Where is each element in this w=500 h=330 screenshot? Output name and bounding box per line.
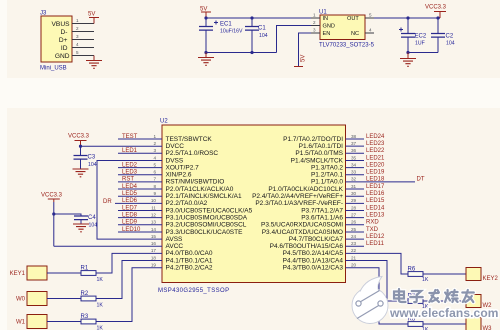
svg-text:P2.2/TA0.0/A2: P2.2/TA0.0/A2: [166, 200, 208, 207]
svg-text:P4.7/TB0CLK/CA7: P4.7/TB0CLK/CA7: [289, 236, 344, 243]
svg-text:28: 28: [351, 205, 357, 210]
svg-text:LED12: LED12: [366, 234, 385, 240]
svg-text:AVSS: AVSS: [166, 236, 184, 243]
svg-text:XOUT/P2.7: XOUT/P2.7: [166, 164, 200, 171]
svg-text:D-: D-: [61, 29, 68, 36]
svg-text:P2.0/TA1CLK/ACLK/A0: P2.0/TA1CLK/ACLK/A0: [166, 186, 234, 193]
svg-text:MSP430G2955_TSSOP: MSP430G2955_TSSOP: [158, 288, 230, 294]
svg-text:Mini_USB: Mini_USB: [40, 66, 67, 72]
svg-text:VCC3.3: VCC3.3: [68, 134, 90, 140]
svg-text:P3.2/UCB0SOMI/UCB0SCL: P3.2/UCB0SOMI/UCB0SCL: [166, 222, 247, 229]
svg-text:19: 19: [151, 263, 157, 268]
svg-text:P4.0/TB0.0/CA0: P4.0/TB0.0/CA0: [166, 250, 213, 257]
svg-text:P1.2/TA0.1: P1.2/TA0.1: [311, 172, 343, 179]
svg-text:2: 2: [313, 20, 316, 25]
svg-text:GND: GND: [55, 53, 70, 60]
svg-text:5V: 5V: [301, 55, 307, 62]
svg-text:2: 2: [153, 141, 156, 146]
svg-text:17: 17: [151, 248, 157, 253]
svg-text:LED11: LED11: [366, 241, 385, 247]
svg-text:13: 13: [151, 220, 157, 225]
svg-text:LED7: LED7: [122, 205, 138, 211]
svg-text:P2.1/TAINCLK/SMCLK/A1: P2.1/TAINCLK/SMCLK/A1: [166, 193, 242, 200]
svg-text:104: 104: [88, 162, 97, 168]
svg-text:P4.1/TB0.1/CA1: P4.1/TB0.1/CA1: [166, 257, 213, 264]
svg-text:29: 29: [351, 198, 357, 203]
svg-text:D+: D+: [59, 37, 68, 44]
svg-text:RST/NMI/SBWTDIO: RST/NMI/SBWTDIO: [166, 179, 225, 186]
svg-text:1K: 1K: [97, 326, 104, 330]
svg-text:LED1: LED1: [122, 148, 138, 154]
svg-text:EC2: EC2: [415, 34, 427, 40]
svg-text:3: 3: [313, 28, 316, 33]
svg-text:LED2: LED2: [122, 162, 138, 168]
svg-text:KEY2: KEY2: [483, 276, 499, 282]
svg-text:LED22: LED22: [366, 148, 385, 154]
svg-text:R3: R3: [81, 314, 89, 320]
svg-text:LED13: LED13: [366, 212, 385, 218]
svg-text:12: 12: [151, 212, 157, 217]
svg-text:TEST/SBWTCK: TEST/SBWTCK: [166, 136, 213, 143]
svg-text:OUT: OUT: [347, 16, 359, 22]
svg-text:LED23: LED23: [366, 141, 385, 147]
svg-text:8: 8: [153, 184, 156, 189]
svg-text:P1.4/SMCLK/TCK: P1.4/SMCLK/TCK: [291, 157, 344, 164]
svg-text:LED24: LED24: [366, 134, 385, 140]
svg-text:VBUS: VBUS: [52, 21, 71, 28]
svg-text:C1: C1: [258, 26, 266, 32]
svg-text:R1: R1: [81, 265, 89, 271]
svg-text:9: 9: [153, 191, 156, 196]
svg-text:P2.4/TA0.2/A4/VREF+/VeREF+: P2.4/TA0.2/A4/VREF+/VeREF+: [252, 193, 343, 200]
svg-text:P4.6/TB0OUTH/A15/CA6: P4.6/TB0OUTH/A15/CA6: [270, 243, 344, 250]
svg-text:5V: 5V: [88, 12, 95, 18]
svg-text:33: 33: [351, 170, 357, 175]
svg-text:P3.6/TA1.1/A6: P3.6/TA1.1/A6: [301, 214, 343, 221]
svg-text:LED16: LED16: [366, 191, 385, 197]
svg-text:25: 25: [351, 227, 357, 232]
svg-text:3: 3: [153, 148, 156, 153]
svg-text:P1.1/TA0.0: P1.1/TA0.0: [311, 179, 343, 186]
svg-text:W3: W3: [483, 326, 493, 330]
svg-text:P1.0/TA0CLK/ADC10CLK: P1.0/TA0CLK/ADC10CLK: [268, 186, 343, 193]
svg-text:RXD: RXD: [366, 220, 379, 226]
svg-text:18: 18: [151, 255, 157, 260]
svg-text:IN: IN: [323, 16, 329, 22]
svg-text:26: 26: [351, 220, 357, 225]
svg-text:W0: W0: [16, 297, 26, 303]
svg-text:KEY1: KEY1: [10, 271, 26, 277]
svg-text:P3.3/UCB0CLK/UCA0STE: P3.3/UCB0CLK/UCA0STE: [166, 229, 244, 236]
svg-text:P3.4/UCA0TXD/UCA0SIMO: P3.4/UCA0TXD/UCA0SIMO: [262, 229, 343, 236]
svg-text:4: 4: [369, 28, 372, 33]
svg-text:10uF/16V: 10uF/16V: [220, 29, 243, 35]
svg-text:1UF: 1UF: [415, 41, 425, 47]
svg-text:LED9: LED9: [122, 220, 138, 226]
svg-text:P1.7/TA0.2/TDO/TDI: P1.7/TA0.2/TDO/TDI: [283, 136, 343, 143]
svg-text:DVSS: DVSS: [166, 157, 184, 164]
svg-text:LED6: LED6: [122, 198, 138, 204]
svg-text:P4.5/TB0.2/A14/CA5: P4.5/TB0.2/A14/CA5: [283, 250, 344, 257]
svg-text:34: 34: [351, 162, 357, 167]
svg-text:22: 22: [351, 248, 357, 253]
svg-text:30: 30: [351, 191, 357, 196]
svg-text:LED10: LED10: [122, 227, 141, 233]
svg-text:P3.7/TA1.2/A7: P3.7/TA1.2/A7: [301, 207, 343, 214]
svg-text:16: 16: [151, 241, 157, 246]
svg-text:23: 23: [351, 241, 357, 246]
svg-text:C3: C3: [88, 155, 96, 161]
svg-text:4: 4: [76, 42, 79, 47]
svg-text:RST: RST: [122, 177, 134, 183]
svg-text:6: 6: [153, 170, 156, 175]
svg-text:LED4: LED4: [122, 184, 138, 190]
svg-text:VCC3.3: VCC3.3: [425, 5, 447, 11]
svg-text:5: 5: [153, 162, 156, 167]
svg-text:10: 10: [151, 198, 157, 203]
svg-text:W1: W1: [16, 320, 26, 326]
svg-text:LED17: LED17: [366, 184, 385, 190]
svg-text:38: 38: [351, 134, 357, 139]
svg-text:104: 104: [89, 223, 98, 229]
svg-text:U2: U2: [160, 119, 168, 125]
svg-text:P3.5/UCA0RXD/UCA0SOMI: P3.5/UCA0RXD/UCA0SOMI: [261, 222, 343, 229]
svg-text:P1.6/TA0.1/TDI: P1.6/TA0.1/TDI: [299, 143, 344, 150]
svg-text:1: 1: [153, 134, 156, 139]
svg-text:P1.3/TA0.2: P1.3/TA0.2: [311, 164, 343, 171]
svg-text:DT: DT: [417, 177, 425, 183]
svg-text:GND: GND: [323, 24, 335, 30]
svg-text:R2: R2: [81, 291, 89, 297]
svg-text:LED8: LED8: [122, 212, 138, 218]
svg-text:P3.0/UCB0STE/UCA0CLK/A5: P3.0/UCB0STE/UCA0CLK/A5: [166, 207, 253, 214]
svg-text:1K: 1K: [97, 303, 104, 309]
svg-text:P1.5/TA0.0/TMS: P1.5/TA0.0/TMS: [295, 150, 343, 157]
svg-text:NC: NC: [351, 31, 359, 37]
svg-text:LED5: LED5: [122, 191, 138, 197]
svg-text:www.elecfans.com: www.elecfans.com: [389, 306, 499, 320]
svg-text:4: 4: [153, 155, 156, 160]
svg-text:P4.2/TB0.2/CA2: P4.2/TB0.2/CA2: [166, 265, 213, 272]
svg-text:EC1: EC1: [220, 22, 232, 28]
svg-text:36: 36: [351, 148, 357, 153]
svg-text:21: 21: [351, 255, 357, 260]
svg-text:U1: U1: [319, 10, 327, 16]
svg-text:104: 104: [446, 41, 455, 47]
svg-text:AVCC: AVCC: [166, 243, 184, 250]
svg-text:1: 1: [313, 13, 316, 18]
svg-text:1K: 1K: [97, 277, 104, 283]
svg-text:DR: DR: [103, 199, 112, 205]
svg-text:ID: ID: [61, 45, 68, 52]
svg-text:LED21: LED21: [366, 155, 385, 161]
svg-text:LED18: LED18: [366, 177, 385, 183]
svg-text:C2: C2: [446, 34, 454, 40]
svg-text:5: 5: [76, 50, 79, 55]
svg-text:LED3: LED3: [122, 170, 138, 176]
svg-text:37: 37: [351, 141, 357, 146]
svg-text:35: 35: [351, 155, 357, 160]
svg-text:11: 11: [151, 205, 156, 210]
svg-text:1K: 1K: [422, 277, 429, 283]
svg-text:P2.5/TA1.0/ROSC: P2.5/TA1.0/ROSC: [166, 150, 219, 157]
svg-text:DVCC: DVCC: [166, 143, 185, 150]
svg-text:LED14: LED14: [366, 205, 385, 211]
svg-text:P3.1/UCB0SIMO/UCB0SDA: P3.1/UCB0SIMO/UCB0SDA: [166, 214, 248, 221]
svg-text:3: 3: [76, 34, 79, 39]
svg-text:5: 5: [369, 13, 372, 18]
svg-text:P4.3/TB0.0/A12/CA3: P4.3/TB0.0/A12/CA3: [283, 265, 344, 272]
svg-text:LED19: LED19: [366, 170, 385, 176]
svg-text:20: 20: [351, 263, 357, 268]
svg-text:VCC3.3: VCC3.3: [41, 193, 63, 199]
svg-text:TLV70233_SOT23-5: TLV70233_SOT23-5: [319, 43, 375, 49]
svg-text:EN: EN: [323, 31, 331, 37]
svg-text:27: 27: [351, 212, 357, 217]
svg-text:LED15: LED15: [366, 198, 385, 204]
svg-text:7: 7: [153, 177, 156, 182]
svg-text:XIN/P2.6: XIN/P2.6: [166, 172, 192, 179]
svg-text:1: 1: [76, 18, 79, 23]
svg-text:14: 14: [151, 227, 157, 232]
svg-text:R6: R6: [408, 266, 416, 272]
svg-text:104: 104: [259, 33, 268, 39]
svg-text:TEST: TEST: [122, 134, 138, 140]
svg-text:31: 31: [351, 184, 357, 189]
svg-text:J3: J3: [40, 11, 47, 17]
svg-text:32: 32: [351, 177, 357, 182]
svg-text:P4.4/TB0.1/A13/CA4: P4.4/TB0.1/A13/CA4: [283, 257, 344, 264]
svg-text:P2.3/TA0.1/A3/VREF-/VeREF-: P2.3/TA0.1/A3/VREF-/VeREF-: [255, 200, 343, 207]
svg-text:LED20: LED20: [366, 162, 385, 168]
svg-text:24: 24: [351, 234, 357, 239]
svg-text:15: 15: [151, 234, 157, 239]
svg-text:C4: C4: [88, 215, 96, 221]
svg-text:2: 2: [76, 26, 79, 31]
svg-text:TXD: TXD: [366, 227, 379, 233]
